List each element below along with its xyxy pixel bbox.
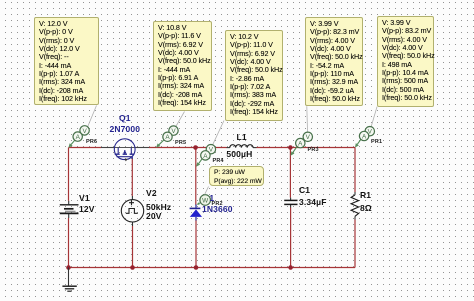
label R1 refdes	[360, 191, 371, 199]
svg-text:V: V	[306, 134, 311, 141]
wire top rail middle segment (Q1 source to L1)	[135, 147, 230, 149]
svg-text:A: A	[203, 153, 208, 160]
battery V1	[60, 205, 79, 214]
label probe PR1	[371, 140, 382, 145]
label Q1 refdes	[119, 114, 131, 122]
label C1 refdes	[299, 186, 310, 194]
wire C1 branch top	[289, 148, 291, 201]
wire left branch V1	[68, 148, 70, 268]
svg-text:A: A	[298, 141, 303, 148]
leader line box2 to PR5	[175, 112, 185, 129]
svg-text:V: V	[82, 128, 87, 135]
label L1 value	[226, 150, 252, 158]
power probe readout box PR2	[209, 166, 264, 186]
wire R1 branch bottom	[354, 216, 356, 267]
wire R1 branch top	[354, 148, 356, 195]
wire bottom rail	[69, 267, 356, 269]
ground	[62, 268, 76, 292]
label V1 refdes	[79, 194, 90, 202]
leader line box3 to PR4	[211, 121, 224, 148]
wire C1 branch bottom	[290, 205, 292, 268]
resistor R1	[351, 195, 359, 216]
label V2 amplitude	[146, 212, 162, 220]
label diode part 1N3660	[202, 205, 233, 213]
label D1 refdes partially hidden	[209, 194, 214, 202]
probe PR1	[355, 127, 375, 148]
source V2	[121, 200, 143, 222]
svg-text:A: A	[362, 133, 367, 140]
junction node V2/bottom rail	[130, 265, 135, 270]
probe readout box PR6	[34, 17, 99, 105]
transistor Q1 2N7000	[114, 139, 135, 162]
label probe PR5	[175, 141, 186, 146]
probe PR6	[68, 126, 89, 148]
label C1 value	[299, 198, 327, 206]
wire top rail left segment (V1 corner to Q1 drain)	[69, 147, 115, 149]
wire V2 to bottom rail	[132, 222, 134, 268]
wire diode branch top	[195, 148, 197, 205]
leader line box1 to PR6	[87, 106, 97, 130]
label probe PR4	[213, 159, 224, 164]
inductor L1	[230, 145, 253, 148]
label L1 refdes	[237, 133, 247, 141]
probe readout box PR3	[305, 17, 363, 106]
label Q1 part 2N7000	[110, 125, 141, 133]
probe readout box PR4	[225, 30, 283, 121]
junction node V1/ground bottom rail	[66, 265, 71, 270]
probe readout box PR5	[153, 21, 212, 111]
label V2 frequency	[146, 203, 171, 211]
junction node C1/top rail	[288, 145, 293, 150]
label probe PR3	[308, 148, 319, 153]
diode D1 1N3660	[190, 205, 202, 221]
junction node C1/bottom rail	[288, 265, 293, 270]
label PR2	[212, 202, 223, 207]
wire gate branch Q1 to V2	[131, 159, 133, 200]
leader line box5 to PR1	[370, 107, 377, 130]
label R1 value	[360, 204, 372, 212]
svg-text:A: A	[165, 134, 170, 141]
label probe PR6	[86, 140, 97, 145]
junction node diode/top rail	[193, 145, 198, 150]
probe PR2 power probe W	[197, 195, 211, 206]
wire diode branch bottom	[195, 220, 197, 268]
probe PR4	[196, 145, 215, 167]
leader line P box to PR2	[205, 187, 209, 195]
label V2 refdes	[146, 189, 157, 197]
label V1 value	[79, 205, 95, 213]
leader line box4 to PR3	[306, 106, 309, 135]
capacitor C1	[284, 200, 297, 204]
probe PR3	[291, 132, 313, 156]
svg-text:A: A	[76, 134, 81, 141]
probe PR5	[156, 126, 178, 148]
probe readout box PR1	[377, 16, 434, 107]
wire top rail right segment (L1 to R1 corner)	[253, 147, 355, 149]
junction node diode/bottom rail	[194, 265, 199, 270]
svg-text:V: V	[171, 128, 176, 135]
